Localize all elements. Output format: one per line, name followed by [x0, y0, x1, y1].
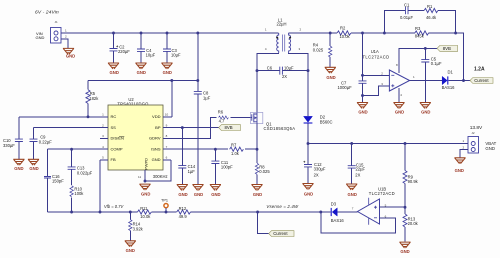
pin 10 VDD: [163, 116, 171, 118]
node rail-C3: [166, 32, 169, 35]
wire D2 to output line: [307, 124, 309, 144]
pin 7 ISNS: [163, 148, 171, 150]
svg-text:GND: GND: [455, 168, 464, 173]
svg-text:GDRV: GDRV: [149, 136, 161, 141]
node C15 tap: [350, 142, 353, 145]
svg-text:GND: GND: [326, 75, 335, 80]
node R4 tap: [329, 32, 332, 35]
ground C11: [210, 185, 221, 191]
svg-text:J2: J2: [471, 131, 475, 135]
ground C2: [108, 63, 119, 69]
ground C9: [28, 159, 39, 165]
svg-text:10µF: 10µF: [146, 52, 156, 57]
svg-text:10.0k: 10.0k: [140, 214, 151, 219]
node output junction: [462, 79, 465, 82]
svg-text:100k: 100k: [74, 191, 84, 196]
wire VIN rail right / R2: [289, 33, 464, 81]
svg-text:BAS16: BAS16: [331, 218, 345, 223]
svg-text:GND: GND: [304, 191, 313, 196]
resistor R14: [129, 212, 144, 240]
resistor R8: [255, 149, 270, 184]
wire R5 feed line: [88, 80, 198, 82]
svg-text:3.92k: 3.92k: [133, 226, 144, 231]
pin 5 FB: [100, 159, 108, 161]
svg-text:BAS16: BAS16: [442, 85, 456, 90]
svg-text:0.022µF: 0.022µF: [77, 170, 93, 175]
capacitor C8: [194, 91, 211, 101]
pin 2 SS: [100, 127, 108, 129]
capacitor C5: [421, 48, 442, 102]
svg-text:100pF: 100pF: [221, 165, 233, 170]
svg-text:GND: GND: [110, 70, 119, 75]
wire C7 inverting input column: [362, 33, 364, 102]
svg-text:1: 1: [265, 28, 267, 32]
svg-text:GND: GND: [395, 110, 404, 115]
svg-text:4.7: 4.7: [219, 119, 225, 124]
node D2 out: [307, 142, 310, 145]
pin 3 DIS/EN: [100, 137, 108, 139]
resistor R5: [86, 81, 99, 117]
svg-text:GND: GND: [194, 192, 203, 197]
resistor R13: [403, 207, 419, 241]
svg-text:8VB: 8VB: [225, 125, 233, 130]
svg-text:Vfb = 0.7V: Vfb = 0.7V: [104, 204, 125, 209]
svg-text:3: 3: [102, 134, 104, 138]
svg-text:1µF: 1µF: [203, 95, 211, 100]
node PWPD ground: [144, 180, 147, 183]
pin 6 GND: [163, 159, 171, 161]
svg-text:1: 1: [65, 29, 67, 33]
svg-text:20.0k: 20.0k: [408, 221, 419, 226]
capacitor C16: [44, 149, 64, 212]
wire FB drop: [99, 160, 101, 212]
wire C1 R1 feedback loop: [384, 11, 455, 34]
svg-text:1µF: 1µF: [188, 169, 196, 174]
ground C5: [420, 103, 431, 109]
wire GDRV to gate: [171, 118, 251, 139]
IC U2 TPS40210DGQ controller: [108, 97, 163, 170]
svg-text:GND: GND: [163, 70, 172, 75]
svg-text:TLC272ACD: TLC272ACD: [363, 55, 390, 60]
node VDD feed: [170, 79, 173, 82]
resistor R9: [403, 144, 419, 208]
node D3 junction: [319, 211, 322, 214]
wire FB net bottom line: [48, 211, 358, 213]
transistor Q1: [251, 112, 296, 130]
svg-text:49.9: 49.9: [179, 214, 188, 219]
pin 4 COMP: [100, 148, 108, 150]
ground C4: [135, 63, 146, 69]
pin 9 BP: [163, 127, 171, 129]
node C6 left: [256, 69, 259, 72]
svg-text:Vsense = 2.4W: Vsense = 2.4W: [266, 204, 299, 209]
svg-text:4: 4: [400, 93, 402, 97]
svg-text:GND: GND: [36, 35, 45, 40]
svg-text:300KHz: 300KHz: [153, 174, 168, 179]
wire output rail 13.8V: [308, 143, 468, 145]
capacitor C1: [400, 2, 413, 20]
svg-text:R12: R12: [179, 206, 187, 211]
svg-text:0.22µF: 0.22µF: [39, 139, 52, 144]
wire ISNS line: [171, 148, 257, 150]
svg-text:330µF: 330µF: [314, 166, 326, 171]
svg-text:22µF: 22µF: [356, 167, 366, 172]
svg-text:4: 4: [102, 145, 104, 149]
pin 11 PWPD pad: [144, 170, 146, 181]
ground U1A: [393, 103, 404, 109]
capacitor C2: [110, 33, 131, 63]
ground C10: [13, 159, 24, 165]
svg-text:D3: D3: [331, 202, 337, 207]
svg-text:150pF: 150pF: [52, 179, 64, 184]
wire L1 secondary right to D2: [289, 53, 308, 116]
node FB bottom: [99, 211, 102, 214]
svg-text:VDD: VDD: [152, 114, 161, 119]
svg-text:TP1: TP1: [161, 199, 168, 203]
wire U1A output: [410, 80, 470, 82]
diode D2 B560C: [304, 115, 333, 125]
wire J2 pin2 to ground: [460, 150, 468, 158]
wire VDD up to VIN feed line: [170, 81, 173, 117]
svg-text:3: 3: [299, 47, 301, 51]
svg-text:2X: 2X: [282, 74, 287, 79]
wire BP line: [171, 127, 219, 129]
svg-text:GND: GND: [485, 146, 495, 151]
capacitor C15: [348, 144, 366, 184]
wire L1 secondary left to Q1: [257, 53, 279, 112]
wire pin2: [363, 74, 390, 76]
capacitor C9: [30, 128, 53, 159]
node C5 tap: [424, 47, 427, 50]
svg-text:R7: R7: [231, 142, 237, 147]
connector J2: [463, 131, 497, 153]
svg-text:GND: GND: [348, 192, 357, 197]
ground C14: [177, 185, 188, 191]
ground C7: [357, 103, 368, 109]
net flag 8VB (BP): [219, 125, 241, 131]
svg-text:1: 1: [413, 75, 415, 79]
wire U1B pin6 feedback: [321, 212, 396, 233]
resistor R7: [228, 142, 245, 155]
svg-text:3: 3: [381, 82, 383, 86]
svg-text:90.9k: 90.9k: [408, 179, 419, 184]
svg-text:FB: FB: [111, 157, 116, 162]
svg-text:GND: GND: [137, 70, 146, 75]
ground R4: [325, 67, 336, 73]
pin 8 GDRV: [163, 137, 171, 139]
svg-text:0.1µF: 0.1µF: [431, 61, 442, 66]
svg-text:GND: GND: [141, 191, 150, 196]
svg-text:BP: BP: [155, 125, 161, 130]
capacitor C14: [178, 128, 196, 184]
svg-text:8VB: 8VB: [443, 46, 451, 51]
svg-text:10: 10: [165, 113, 169, 117]
ground C8: [192, 185, 203, 191]
svg-text:0.01µF: 0.01µF: [400, 15, 413, 20]
svg-text:6: 6: [166, 156, 168, 160]
node ISNS-Q1 source: [256, 148, 259, 151]
svg-text:220µF: 220µF: [118, 49, 130, 54]
wire U1B pin5: [380, 206, 406, 208]
wire rail drop to C8/VDD: [197, 33, 199, 184]
svg-text:13.8V: 13.8V: [470, 125, 483, 131]
svg-text:2X: 2X: [314, 172, 319, 177]
connector J1: [36, 20, 68, 43]
node R9 tap: [404, 142, 407, 145]
wire Q1 source down: [256, 124, 258, 150]
svg-text:0.025: 0.025: [313, 48, 324, 53]
svg-text:ISNS: ISNS: [151, 147, 161, 152]
svg-text:4: 4: [265, 47, 267, 51]
wire to Current flag: [258, 212, 269, 234]
svg-text:CSD18563Q5A: CSD18563Q5A: [264, 126, 296, 131]
svg-text:1.0k: 1.0k: [231, 151, 240, 156]
net flag Current (bottom): [269, 231, 294, 237]
capacitor C12: [303, 144, 326, 184]
svg-text:10.0k: 10.0k: [340, 34, 351, 39]
ground C12: [302, 184, 313, 190]
svg-text:RC: RC: [111, 114, 117, 119]
capacitor C3: [163, 33, 181, 63]
svg-text:10µF: 10µF: [171, 52, 181, 57]
svg-text:GND: GND: [14, 166, 23, 171]
ground R13: [399, 242, 410, 248]
svg-text:Current: Current: [273, 231, 288, 236]
svg-text:7: 7: [166, 145, 168, 149]
svg-text:0.025: 0.025: [259, 169, 270, 174]
svg-text:U1A: U1A: [371, 49, 379, 54]
svg-text:GND: GND: [421, 110, 430, 115]
test point TP1: [161, 199, 168, 214]
capacitor C7: [338, 80, 367, 90]
svg-text:SS: SS: [111, 125, 117, 130]
svg-text:GND: GND: [211, 192, 220, 197]
svg-text:9: 9: [166, 123, 168, 127]
svg-text:1: 1: [463, 139, 465, 143]
net flag Current (top): [470, 78, 493, 84]
svg-text:R1: R1: [427, 4, 433, 9]
svg-text:1.2A: 1.2A: [474, 66, 485, 72]
svg-text:5: 5: [102, 156, 104, 160]
svg-text:GND: GND: [152, 157, 161, 162]
svg-text:B560C: B560C: [320, 120, 333, 125]
svg-text:8: 8: [166, 134, 168, 138]
resistor R6: [218, 110, 229, 124]
svg-text:R11: R11: [140, 206, 148, 211]
svg-text:11: 11: [138, 175, 141, 179]
svg-text:2X: 2X: [355, 172, 360, 177]
node R10 bottom: [70, 211, 73, 214]
node C1R1 right tap: [454, 32, 457, 35]
svg-text:2: 2: [463, 145, 465, 149]
ground R8: [251, 185, 262, 191]
svg-text:GND: GND: [178, 192, 187, 197]
resistor R11: [138, 206, 152, 219]
node pin2 tap: [361, 74, 364, 77]
wire U1A pin4 to ground: [398, 88, 400, 102]
op-amp U1A: [363, 49, 416, 97]
net flag 8VB (top): [437, 46, 458, 52]
svg-text:GND: GND: [126, 248, 135, 253]
node C1R1 left tap: [383, 32, 386, 35]
svg-text:2: 2: [300, 28, 302, 32]
svg-text:COMP: COMP: [111, 147, 123, 152]
node C6 right: [307, 69, 310, 72]
svg-text:J1: J1: [55, 20, 59, 24]
ground C15: [346, 184, 357, 190]
wire pin3 path: [363, 86, 390, 96]
node C7 bottom: [361, 94, 364, 97]
svg-text:R2: R2: [340, 26, 346, 31]
node Vsense-Current tap: [256, 211, 259, 214]
resistor R1: [424, 4, 438, 20]
ground U2: [139, 184, 150, 190]
resistor R4: [313, 33, 332, 67]
svg-text:Current: Current: [474, 78, 489, 83]
svg-text:6V - 24Vin: 6V - 24Vin: [35, 10, 59, 16]
node rail-C2: [112, 32, 115, 35]
svg-text:C1: C1: [404, 2, 410, 7]
svg-text:1: 1: [102, 113, 104, 117]
svg-text:8: 8: [396, 63, 398, 67]
diode D3 BAS16: [331, 202, 345, 223]
node C8 top / R5 line: [196, 79, 199, 82]
resistor R2: [337, 26, 351, 39]
op-amp U1B: [352, 187, 395, 225]
node rail-C4: [140, 32, 143, 35]
resistor R12: [177, 206, 191, 219]
capacitor C11: [211, 149, 233, 184]
svg-text:22µH: 22µH: [277, 21, 287, 26]
wire J1 pin2 to ground: [61, 39, 68, 48]
capacitor C13: [68, 149, 93, 175]
resistor R3: [415, 26, 429, 38]
svg-text:C6: C6: [267, 66, 273, 71]
ground J1: [63, 48, 74, 54]
node R5-RC: [87, 115, 90, 118]
wire SS line: [34, 127, 101, 129]
svg-text:GND: GND: [253, 192, 262, 197]
svg-text:2: 2: [65, 35, 67, 39]
wire VIN rail: [61, 32, 279, 34]
capacitor C4: [137, 33, 156, 63]
svg-text:GND: GND: [66, 53, 75, 58]
svg-text:GND: GND: [400, 249, 409, 254]
svg-text:R3: R3: [415, 26, 421, 31]
wire U2 GND pin to pad ground: [145, 160, 171, 181]
wire RC line: [19, 116, 100, 118]
svg-text:10µF: 10µF: [284, 66, 294, 71]
svg-text:GND: GND: [358, 110, 367, 115]
ground C3: [161, 63, 172, 69]
node COMP-C13: [70, 148, 73, 151]
svg-text:R6: R6: [218, 110, 224, 115]
node R9 R13 divider: [404, 206, 407, 209]
diode D1 BAS16: [442, 70, 456, 91]
svg-text:845k: 845k: [415, 34, 425, 39]
svg-text:D1: D1: [448, 70, 454, 75]
svg-text:330µF: 330µF: [3, 143, 15, 148]
svg-text:182k: 182k: [89, 96, 99, 101]
svg-text:46.4k: 46.4k: [426, 15, 437, 20]
pin 1 RC: [100, 116, 108, 118]
svg-text:1000µF: 1000µF: [338, 85, 353, 90]
svg-text:PWPD: PWPD: [144, 158, 149, 170]
node C7 rail tap: [361, 32, 364, 35]
wire U1A pin8 to 8VB: [399, 48, 437, 73]
node BP-C14: [181, 126, 184, 129]
node rail-C8: [196, 32, 199, 35]
resistor R10: [70, 171, 84, 212]
inductor L1: [265, 17, 302, 53]
ground J2: [454, 158, 465, 164]
svg-text:7: 7: [352, 207, 354, 211]
capacitor C6: [257, 66, 308, 79]
svg-text:2: 2: [102, 123, 104, 127]
node R14: [129, 211, 132, 214]
capacitor C10: [3, 117, 23, 159]
ground R14: [125, 241, 136, 247]
node ISNS-C11: [214, 148, 217, 151]
svg-text:GND: GND: [29, 166, 38, 171]
svg-text:TLC272ACD: TLC272ACD: [369, 191, 395, 196]
wire COMP line: [48, 148, 101, 150]
